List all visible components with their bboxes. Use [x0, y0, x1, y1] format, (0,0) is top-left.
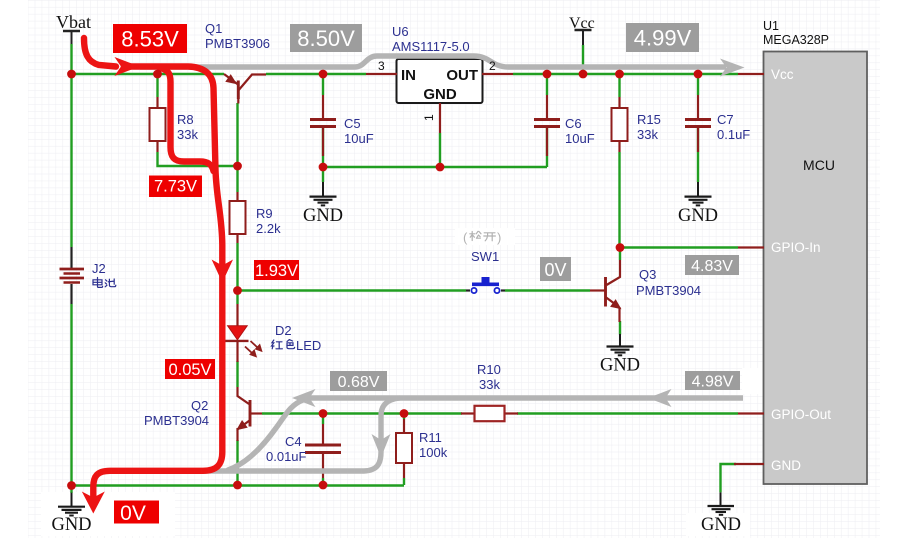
gray flow path bottom (GPIO-Out): [308, 395, 743, 400]
svg-text:0.01uF: 0.01uF: [266, 449, 307, 464]
svg-text:4.83V: 4.83V: [691, 258, 733, 275]
junction node 1.93V: [233, 286, 242, 295]
wire node to R9: [236, 166, 238, 192]
ground (C7): [685, 182, 712, 205]
wire R11 bottom lead: [403, 478, 405, 485]
voltage box 0.68V gray: [330, 371, 387, 391]
svg-text:3: 3: [378, 59, 385, 73]
LED emission arrows: [245, 341, 262, 357]
svg-text:1.93V: 1.93V: [255, 262, 298, 280]
svg-text:C6: C6: [565, 116, 582, 131]
gray arrowhead into Vcc pin: [720, 59, 745, 77]
wire Q2 emitter down: [236, 440, 238, 486]
svg-text:Vcc: Vcc: [771, 67, 794, 82]
svg-text:SW1: SW1: [471, 249, 499, 264]
wire bottom rail: [71, 484, 404, 486]
svg-text:Q1: Q1: [205, 21, 222, 36]
svg-text:C7: C7: [717, 112, 734, 127]
capacitor C6: [534, 95, 560, 156]
ground (battery, bottom left): [58, 493, 85, 516]
voltage box 1.93V red: [254, 260, 299, 280]
svg-text:8.50V: 8.50V: [297, 26, 355, 51]
transistor Q3 NPN: [590, 260, 621, 322]
gray mid arrowhead on GPIO-Out line: [648, 389, 672, 407]
svg-text:GPIO-Out: GPIO-Out: [771, 407, 831, 422]
voltage box 8.53V red: [113, 24, 187, 53]
svg-text:10uF: 10uF: [565, 131, 595, 146]
red arrowhead right (into top rail): [115, 57, 140, 76]
svg-text:GND: GND: [303, 206, 343, 226]
wire R11 top lead: [403, 414, 405, 420]
svg-text:10uF: 10uF: [344, 131, 374, 146]
svg-text:): ): [497, 230, 501, 245]
svg-text:D2: D2: [275, 323, 292, 338]
voltage box 0V gray: [540, 257, 571, 281]
gray arrowhead at 0.68V node: [292, 389, 316, 407]
svg-text:33k: 33k: [479, 377, 500, 392]
resistor R8: [150, 97, 166, 152]
svg-text:1: 1: [422, 114, 436, 121]
svg-text:PMBT3904: PMBT3904: [636, 283, 701, 298]
svg-text:PMBT3906: PMBT3906: [205, 36, 270, 51]
svg-text:OUT: OUT: [446, 67, 478, 84]
junction C4 top node 0.68V: [319, 409, 328, 418]
svg-text:0.1uF: 0.1uF: [717, 127, 750, 142]
svg-text:R11: R11: [419, 430, 442, 445]
capacitor C5: [310, 95, 336, 156]
wire R9 to node 1.93V: [236, 243, 238, 291]
resistor R15: [612, 97, 628, 152]
svg-text:4.99V: 4.99V: [634, 26, 692, 51]
svg-text:IN: IN: [401, 67, 416, 84]
svg-text:AMS1117-5.0: AMS1117-5.0: [392, 39, 470, 54]
U6 regulator box: [366, 59, 513, 133]
Vbat power symbol: [63, 31, 80, 44]
switch SW1: [466, 277, 505, 293]
voltage box 4.83V gray: [685, 255, 739, 275]
LED D2: [225, 304, 262, 362]
svg-text:R8: R8: [177, 112, 194, 127]
wire MCU gnd corner: [721, 464, 737, 492]
svg-text:Q2: Q2: [191, 398, 208, 413]
red branch around R8: [160, 68, 214, 171]
svg-text:U6: U6: [392, 24, 409, 39]
svg-text:J2: J2: [92, 261, 106, 276]
capacitor C7: [685, 95, 711, 152]
wire C5 bottom lead: [322, 128, 324, 167]
svg-text:PMBT3904: PMBT3904: [144, 413, 209, 428]
svg-text:GND: GND: [600, 356, 640, 376]
ground (Q3): [607, 334, 634, 355]
voltage box 4.98V gray: [685, 371, 740, 390]
junction C7 top: [694, 70, 703, 79]
svg-text:2.2k: 2.2k: [256, 221, 281, 236]
junction U6 gnd pin: [436, 163, 445, 172]
label (song kai) released: [463, 230, 501, 245]
gray arrowhead down into R11: [372, 434, 391, 458]
svg-text:LED: LED: [296, 338, 321, 353]
svg-text:8.53V: 8.53V: [121, 27, 179, 52]
svg-text:GND: GND: [701, 515, 741, 535]
junction C5 top: [319, 70, 328, 79]
wire LED bottom to Q2: [236, 361, 238, 387]
svg-text:100k: 100k: [419, 445, 448, 460]
svg-text:(: (: [463, 230, 468, 245]
voltage box 7.73V red: [149, 176, 202, 198]
svg-text:0.68V: 0.68V: [338, 374, 380, 391]
wire top rail mid: [266, 73, 366, 75]
junction C6 top: [543, 70, 552, 79]
wire LED top lead: [236, 291, 238, 304]
wire Vbat vertical bottom: [70, 304, 72, 493]
svg-text:C4: C4: [285, 434, 302, 449]
junction Vbat/top rail: [67, 70, 76, 79]
resistor R10: [461, 406, 518, 421]
resistor R9: [230, 192, 246, 243]
svg-text:MEGA328P: MEGA328P: [763, 33, 829, 47]
svg-text:2: 2: [489, 59, 496, 73]
junction Vcc symbol: [579, 70, 588, 79]
junction C5 bottom gnd rail: [319, 163, 328, 172]
svg-text:7.73V: 7.73V: [154, 178, 197, 196]
Vcc power symbol: [575, 30, 592, 45]
svg-text:4.98V: 4.98V: [692, 374, 734, 391]
wire C6 top lead: [546, 74, 548, 95]
wire 1.93V rail to SW1: [238, 289, 467, 291]
wire SW1 to Q3 base: [505, 289, 590, 291]
wire Q1 base to node: [236, 103, 238, 166]
wire C4 bottom lead: [322, 478, 324, 485]
MCU block U1: [734, 52, 867, 485]
wire Q3 collector lead: [619, 247, 621, 260]
svg-text:33k: 33k: [177, 127, 198, 142]
svg-text:R10: R10: [477, 362, 501, 377]
svg-text:GND: GND: [51, 515, 91, 535]
red flow main path from Vbat: [84, 38, 222, 497]
svg-text:Vbat: Vbat: [56, 12, 91, 32]
ground (MCU): [708, 492, 735, 514]
wire C6 bottom lead: [546, 128, 548, 167]
svg-text:0.05V: 0.05V: [168, 361, 211, 379]
wire Vcc symbol stem: [582, 45, 584, 74]
wire R15 bottom lead to GPIO-In: [618, 152, 620, 247]
wire top rail right: [513, 73, 738, 75]
junction C4 bottom rail: [319, 481, 328, 490]
svg-text:Vcc: Vcc: [569, 15, 595, 32]
junction R8 top: [153, 70, 162, 79]
ground (C5/U6): [310, 182, 337, 205]
voltage box 0.05V red: [165, 359, 215, 379]
svg-text:R15: R15: [637, 112, 661, 127]
wire R15 top lead: [618, 74, 620, 97]
white label halo patches: [41, 228, 772, 536]
junction Q2 emitter bottom rail: [233, 481, 242, 490]
wire C7 top lead: [697, 74, 699, 95]
junction GPIO-In node: [616, 243, 625, 252]
wire C4 top lead: [322, 414, 324, 425]
gray flow path top (Vcc supply): [140, 56, 726, 67]
wire Q3 emitter lead: [619, 321, 621, 335]
red mid arrowhead down (through R9): [212, 260, 233, 283]
wire C5 top lead: [322, 74, 324, 95]
wire gpio-out rail right: [517, 412, 738, 414]
voltage box 8.50V gray: [290, 24, 362, 52]
wire gnd rail u6: [323, 166, 547, 168]
wire Vbat vertical top: [70, 44, 72, 247]
wire U6 gnd pin lead: [439, 133, 441, 167]
battery J2: [60, 247, 85, 304]
wire gnd stem green c5: [322, 167, 324, 182]
wire GPIO-In rail: [620, 246, 738, 248]
wire R8 top lead: [156, 74, 158, 97]
svg-text:R9: R9: [256, 206, 273, 221]
junction R15 top: [615, 70, 624, 79]
voltage box 0V red bottom: [114, 501, 159, 524]
wire top rail left: [70, 73, 224, 75]
gray branch down to R11 and bottom: [180, 398, 400, 471]
svg-text:33k: 33k: [637, 127, 658, 142]
red big arrowhead down (to GND): [82, 492, 105, 514]
transistor Q2 NPN: [237, 387, 262, 441]
svg-text:0V: 0V: [120, 502, 146, 525]
wire R8 bottom lead: [158, 152, 237, 166]
wire gpio-out rail left: [262, 412, 462, 414]
junction node 7.73V: [233, 162, 242, 171]
svg-text:GND: GND: [771, 458, 801, 473]
voltage box 4.99V gray: [626, 23, 699, 52]
capacitor C4: [305, 424, 341, 478]
svg-text:GND: GND: [423, 86, 457, 103]
svg-text:GND: GND: [678, 206, 718, 226]
svg-text:U1: U1: [763, 19, 779, 33]
svg-text:GPIO-In: GPIO-In: [771, 240, 821, 255]
transistor Q1 PNP: [224, 74, 266, 104]
gray S-curve at Q2: [228, 400, 303, 470]
svg-text:C5: C5: [344, 116, 361, 131]
wire C7 bottom lead: [697, 128, 699, 182]
svg-text:0V: 0V: [544, 260, 566, 280]
svg-text:Q3: Q3: [639, 267, 656, 282]
resistor R11: [396, 419, 412, 478]
svg-text:MCU: MCU: [803, 157, 835, 173]
junction R11 top: [400, 409, 409, 418]
junction battery gnd: [67, 481, 76, 490]
